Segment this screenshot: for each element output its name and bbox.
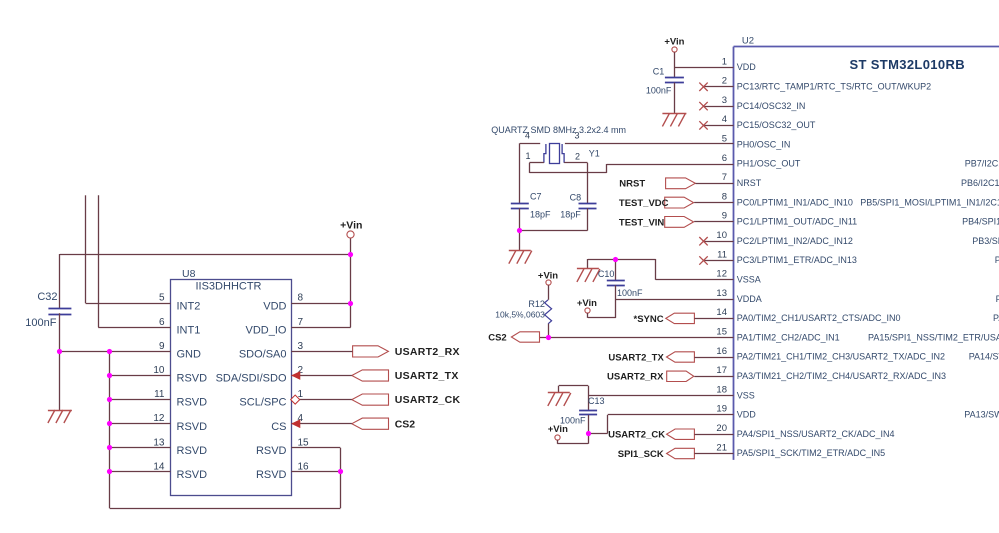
svg-text:PC15/OSC32_OUT: PC15/OSC32_OUT [737,120,816,130]
svg-text:100nF: 100nF [560,416,586,426]
svg-text:PC1/LPTIM1_OUT/ADC_IN11: PC1/LPTIM1_OUT/ADC_IN11 [737,217,857,227]
svg-text:PC2/LPTIM1_IN2/ADC_IN12: PC2/LPTIM1_IN2/ADC_IN12 [737,236,853,246]
svg-text:18pF: 18pF [530,210,551,220]
svg-text:12: 12 [716,269,727,280]
svg-text:CS2: CS2 [395,418,416,430]
svg-text:GND: GND [177,349,202,361]
svg-text:USART2_RX: USART2_RX [395,346,460,358]
svg-text:SDO/SA0: SDO/SA0 [239,349,287,361]
svg-text:PA1/TIM2_CH2/ADC_IN1: PA1/TIM2_CH2/ADC_IN1 [737,332,840,342]
svg-text:15: 15 [298,437,310,448]
svg-text:+Vin: +Vin [577,298,597,309]
svg-text:INT2: INT2 [177,300,201,312]
svg-text:QUARTZ SMD 8MHz 3.2x2.4 mm: QUARTZ SMD 8MHz 3.2x2.4 mm [491,125,626,135]
svg-text:CS2: CS2 [488,332,506,343]
svg-text:7: 7 [722,172,727,183]
svg-text:USART2_RX: USART2_RX [607,372,664,383]
svg-text:1: 1 [722,56,727,67]
svg-text:RSVD: RSVD [177,373,208,385]
svg-text:PA2/TIM21_CH1/TIM2_CH3/USART2_: PA2/TIM21_CH1/TIM2_CH3/USART2_TX/ADC_IN2 [737,352,945,362]
svg-text:PA12/USART1_RTS: PA12/USART1_RTS [993,313,999,323]
svg-text:17: 17 [716,365,727,376]
svg-text:VDD_IO: VDD_IO [246,324,287,336]
svg-text:+Vin: +Vin [538,270,558,281]
svg-text:PC13/RTC_TAMP1/RTC_TS/RTC_OUT/: PC13/RTC_TAMP1/RTC_TS/RTC_OUT/WKUP2 [737,82,931,92]
svg-text:C7: C7 [530,192,542,202]
svg-text:2: 2 [722,76,727,87]
svg-text:VSSA: VSSA [737,275,761,285]
svg-text:U2: U2 [742,35,754,46]
svg-text:4: 4 [722,114,727,125]
svg-text:15: 15 [716,327,727,338]
svg-text:SCL/SPC: SCL/SPC [239,397,286,409]
svg-text:1: 1 [525,151,530,161]
svg-text:6: 6 [159,317,165,328]
svg-text:10k,5%,0603: 10k,5%,0603 [495,310,545,320]
svg-text:PA0/TIM2_CH1/USART2_CTS/ADC_IN: PA0/TIM2_CH1/USART2_CTS/ADC_IN0 [737,313,901,323]
svg-text:PH0/OSC_IN: PH0/OSC_IN [737,139,791,149]
svg-text:ST STM32L010RB: ST STM32L010RB [850,57,965,72]
svg-text:RSVD: RSVD [256,469,287,481]
svg-text:16: 16 [298,461,310,472]
svg-text:PB7/I2C1_SDA/TIM21_CH2/LPTIM1_: PB7/I2C1_SDA/TIM21_CH2/LPTIM1_IN2 [965,159,999,169]
svg-text:14: 14 [716,307,727,318]
svg-text:VDDA: VDDA [737,294,762,304]
svg-text:TEST_VDC: TEST_VDC [619,198,669,209]
svg-text:PB4/SPI1_MISO/TIM21_CH1: PB4/SPI1_MISO/TIM21_CH1 [962,217,999,227]
svg-text:VSS: VSS [737,390,755,400]
svg-text:+Vin: +Vin [664,36,684,47]
svg-text:VDD: VDD [737,62,757,72]
svg-text:PC12/UART5_TX: PC12/UART5_TX [996,294,999,304]
svg-text:Y1: Y1 [589,149,600,159]
svg-text:4: 4 [525,130,530,140]
svg-text:100nF: 100nF [617,288,643,298]
svg-text:INT1: INT1 [177,324,201,336]
svg-text:20: 20 [716,423,727,434]
svg-text:CS: CS [271,421,286,433]
svg-text:IIS3DHHCTR: IIS3DHHCTR [195,281,261,293]
svg-text:USART2_TX: USART2_TX [608,352,664,363]
svg-text:16: 16 [716,346,727,357]
svg-text:RSVD: RSVD [256,445,287,457]
svg-text:100nF: 100nF [25,317,56,329]
svg-text:PC0/LPTIM1_IN1/ADC_IN10: PC0/LPTIM1_IN1/ADC_IN10 [737,197,853,207]
svg-text:9: 9 [159,341,165,352]
svg-text:RSVD: RSVD [177,421,208,433]
svg-text:*SYNC: *SYNC [634,314,664,325]
svg-text:PA14/SWCLK/USART2_TX: PA14/SWCLK/USART2_TX [969,352,999,362]
svg-text:18pF: 18pF [560,210,581,220]
svg-text:PA3/TIM21_CH2/TIM2_CH4/USART2_: PA3/TIM21_CH2/TIM2_CH4/USART2_RX/ADC_IN3 [737,371,946,381]
svg-text:3: 3 [722,95,727,106]
svg-text:VDD: VDD [737,410,757,420]
svg-text:C32: C32 [37,291,57,303]
svg-text:USART2_CK: USART2_CK [608,430,665,441]
svg-text:100nF: 100nF [646,86,672,96]
svg-text:NRST: NRST [737,178,762,188]
svg-text:USART2_TX: USART2_TX [395,370,459,382]
svg-text:C8: C8 [570,193,582,203]
svg-text:U8: U8 [182,268,196,280]
svg-text:3: 3 [574,130,579,140]
svg-text:PB2/LPTIM1_OUT: PB2/LPTIM1_OUT [995,255,999,265]
svg-text:8: 8 [298,293,304,304]
svg-text:5: 5 [159,293,165,304]
svg-text:13: 13 [716,288,727,299]
svg-text:PA13/SWDIO: PA13/SWDIO [964,410,999,420]
svg-text:14: 14 [153,461,165,472]
svg-text:RSVD: RSVD [177,397,208,409]
svg-text:PA15/SPI1_NSS/TIM2_ETR/USART2_: PA15/SPI1_NSS/TIM2_ETR/USART2_RX [868,332,999,342]
svg-text:+Vin: +Vin [548,424,568,435]
svg-text:21: 21 [716,442,727,453]
svg-text:PC3/LPTIM1_ETR/ADC_IN13: PC3/LPTIM1_ETR/ADC_IN13 [737,255,857,265]
svg-text:10: 10 [716,230,727,241]
svg-text:SDA/SDI/SDO: SDA/SDI/SDO [216,373,287,385]
svg-text:RSVD: RSVD [177,445,208,457]
svg-text:13: 13 [153,437,165,448]
svg-text:PB3/SPI1_SCK/TIM2_CH2: PB3/SPI1_SCK/TIM2_CH2 [972,236,999,246]
svg-text:10: 10 [153,365,165,376]
svg-text:PA4/SPI1_NSS/USART2_CK/ADC_IN4: PA4/SPI1_NSS/USART2_CK/ADC_IN4 [737,429,895,439]
svg-text:+Vin: +Vin [340,220,362,232]
svg-text:USART2_CK: USART2_CK [395,394,461,406]
svg-text:SPI1_SCK: SPI1_SCK [618,449,664,460]
svg-text:PB6/I2C1_SCL/TIM21_CH1/LPTIM1_: PB6/I2C1_SCL/TIM21_CH1/LPTIM1_ETR [961,178,999,188]
svg-text:R12: R12 [528,299,545,309]
svg-text:C13: C13 [588,396,605,406]
svg-text:11: 11 [154,389,165,400]
svg-text:C1: C1 [653,67,665,77]
svg-text:8: 8 [722,191,727,202]
svg-text:PB5/SPI1_MOSI/LPTIM1_IN1/I2C1_: PB5/SPI1_MOSI/LPTIM1_IN1/I2C1_SMBA [860,197,999,207]
svg-text:RSVD: RSVD [177,469,208,481]
svg-text:18: 18 [716,384,727,395]
svg-text:3: 3 [298,341,304,352]
svg-text:NRST: NRST [619,179,645,190]
svg-text:TEST_VIN: TEST_VIN [619,217,665,228]
svg-text:PC14/OSC32_IN: PC14/OSC32_IN [737,101,806,111]
svg-text:6: 6 [722,153,727,164]
svg-text:PH1/OSC_OUT: PH1/OSC_OUT [737,159,801,169]
svg-text:11: 11 [717,249,727,260]
svg-text:C10: C10 [598,269,615,279]
svg-text:12: 12 [153,413,165,424]
svg-text:9: 9 [722,211,727,222]
svg-text:PA5/SPI1_SCK/TIM2_ETR/ADC_IN5: PA5/SPI1_SCK/TIM2_ETR/ADC_IN5 [737,448,885,458]
svg-text:7: 7 [298,317,304,328]
svg-text:VDD: VDD [263,300,286,312]
svg-text:2: 2 [575,152,580,162]
svg-text:19: 19 [716,404,727,415]
